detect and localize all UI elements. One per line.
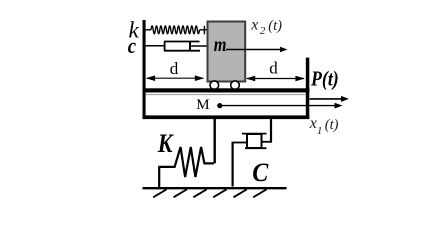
damper C bottom cap <box>245 147 267 149</box>
svg-text:d: d <box>269 59 278 78</box>
damper c (dashpot) <box>146 42 207 51</box>
damper C rod left <box>232 142 248 144</box>
wall (left fixed support) <box>143 20 146 119</box>
damper C rod from platform <box>270 119 272 143</box>
dimension arrow d left <box>146 75 205 81</box>
wall (right post) <box>306 58 310 119</box>
arrow P(t) force <box>310 96 349 102</box>
svg-text:M: M <box>196 97 209 113</box>
thin inner line <box>146 94 306 95</box>
dimension arrow d right <box>246 76 305 82</box>
svg-text:C: C <box>252 159 268 187</box>
spring k <box>146 26 207 34</box>
node dot on M <box>217 103 222 108</box>
damper C piston square <box>247 134 262 148</box>
svg-text:K: K <box>157 130 174 158</box>
damper C top cap <box>242 133 267 135</box>
svg-text:c: c <box>128 35 136 59</box>
svg-text:P(t): P(t) <box>310 68 339 91</box>
rod from platform to spring K <box>213 119 215 164</box>
ground hatching <box>153 189 266 197</box>
mass m (block) <box>208 22 246 82</box>
arrow x2 from mass <box>226 47 288 53</box>
svg-text:m: m <box>214 34 227 56</box>
wheel left <box>210 81 219 90</box>
svg-text:d: d <box>170 59 179 78</box>
platform bottom edge <box>143 115 310 119</box>
damper C rod to ground <box>232 143 234 187</box>
wheel right <box>231 81 240 90</box>
bracket to ground <box>158 167 160 187</box>
damper C piston rod right <box>263 141 273 143</box>
platform deck (top of M) <box>143 88 310 92</box>
arrow x1 from M <box>222 103 343 109</box>
ground line <box>143 187 287 189</box>
spring K <box>158 147 214 177</box>
